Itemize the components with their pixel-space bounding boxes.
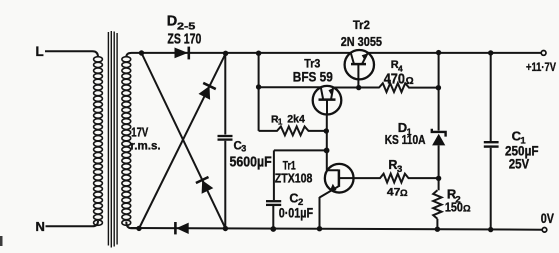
- wire Tr3 collector feed: [259, 86, 321, 88]
- diode D2 top rectifier: [175, 47, 189, 60]
- wire bridge diagonal A: [142, 53, 226, 228]
- label C1: [512, 129, 527, 147]
- wire top rail from bridge to Tr2: [142, 52, 351, 54]
- svg-text:ZTX108: ZTX108: [275, 170, 313, 185]
- svg-text:0·01µF: 0·01µF: [279, 206, 313, 221]
- svg-text:ZS 170: ZS 170: [167, 31, 201, 47]
- label 150 ohm: [445, 201, 471, 215]
- wire C1 top lead: [490, 53, 492, 141]
- svg-text:Ω: Ω: [400, 188, 408, 199]
- svg-text:Tr2: Tr2: [353, 20, 370, 32]
- svg-text:L: L: [36, 44, 44, 59]
- diode D4 on diagonal B: [199, 83, 216, 100]
- wire C2 top lead: [273, 150, 275, 200]
- transistor Tr2 circle: [345, 50, 374, 79]
- svg-text:47: 47: [387, 187, 401, 199]
- resistor R4: [379, 83, 439, 92]
- wire Tr1 emitter to 0V rail: [319, 197, 321, 229]
- wire C2 branch horizontal: [274, 149, 327, 151]
- svg-text:1: 1: [278, 118, 283, 127]
- wire right branch from top rail to D1: [438, 53, 440, 131]
- svg-text:17V: 17V: [131, 125, 148, 139]
- svg-text:25V: 25V: [509, 155, 530, 171]
- diode D5 bottom rectifier: [175, 222, 188, 234]
- transformer T1 core: [108, 31, 117, 248]
- svg-text:150: 150: [445, 201, 463, 215]
- svg-text:2N 3055: 2N 3055: [341, 34, 382, 49]
- svg-text:N: N: [36, 219, 45, 234]
- svg-text:KS 110A: KS 110A: [385, 132, 426, 147]
- svg-text:5600µF: 5600µF: [230, 154, 272, 170]
- wire Tr3 emitter to R4: [333, 87, 380, 89]
- svg-text:D: D: [167, 14, 177, 30]
- diode D3 on diagonal A: [196, 177, 213, 194]
- wire bridge right rail upper / C3 top lead: [224, 53, 226, 135]
- capacitor C2: [266, 201, 281, 205]
- wire R2 to 0V rail: [436, 219, 438, 230]
- transistor Tr1 internals: [320, 169, 354, 197]
- wire N lead to transformer primary: [46, 221, 99, 226]
- label 470 ohm: [384, 71, 414, 88]
- wire from top rail down to Tr3 collector branch: [258, 53, 260, 131]
- label R3: [388, 158, 402, 175]
- label D1: [398, 120, 412, 137]
- wire L lead to transformer primary: [45, 51, 98, 57]
- wire bottom 0V rail: [131, 228, 543, 230]
- label D2-5: [167, 14, 196, 33]
- wire top rail from Tr2 to +11.7V terminal: [368, 52, 541, 54]
- label R1 2k4: [271, 114, 306, 127]
- wire C1 bottom lead to 0V rail: [490, 148, 492, 230]
- wire Tr3 base down through R1 and C2 nodes to Tr1 collector: [326, 114, 328, 170]
- transformer T1 secondary winding: [122, 57, 131, 226]
- diode D1: [432, 129, 446, 146]
- label R4: [391, 59, 403, 73]
- label 17V r.m.s. secondary voltage: [130, 125, 160, 152]
- wire C3 bottom lead to 0V rail: [224, 141, 226, 229]
- resistor R3: [354, 174, 439, 183]
- label 47 ohm: [387, 187, 408, 199]
- wire bridge diagonal B: [139, 53, 226, 228]
- wire C2 bottom lead to 0V rail: [272, 206, 274, 229]
- label C3: [234, 141, 247, 154]
- transformer T1 primary winding: [94, 57, 103, 226]
- resistor R2: [433, 190, 441, 219]
- wire D1 to R3/R2 node: [438, 145, 440, 190]
- svg-text:470: 470: [384, 71, 405, 88]
- svg-text:+11·7V: +11·7V: [526, 60, 556, 74]
- svg-text:r.m.s.: r.m.s.: [130, 138, 160, 152]
- capacitor C1: [484, 142, 499, 146]
- svg-text:BFS 59: BFS 59: [293, 68, 333, 84]
- svg-text:3: 3: [241, 144, 246, 154]
- wire secondary bottom to bridge: [126, 222, 139, 229]
- transistor Tr3 circle: [313, 86, 342, 115]
- capacitor C3: [218, 136, 233, 140]
- svg-text:2k4: 2k4: [287, 114, 306, 126]
- label C2: [289, 191, 303, 208]
- terminal +11.7V output: [541, 51, 546, 56]
- scan artifact left edge: [0, 236, 3, 246]
- label R2: [447, 187, 461, 206]
- transistor Tr3 internals: [319, 87, 336, 114]
- transistor Tr1 circle: [325, 164, 354, 193]
- svg-text:0V: 0V: [541, 211, 554, 226]
- wire secondary top to bridge: [126, 53, 141, 57]
- svg-text:Ω: Ω: [463, 204, 471, 215]
- transistor Tr2 internals: [351, 53, 368, 88]
- resistor R1: [259, 127, 327, 136]
- terminal 0V output: [542, 228, 547, 233]
